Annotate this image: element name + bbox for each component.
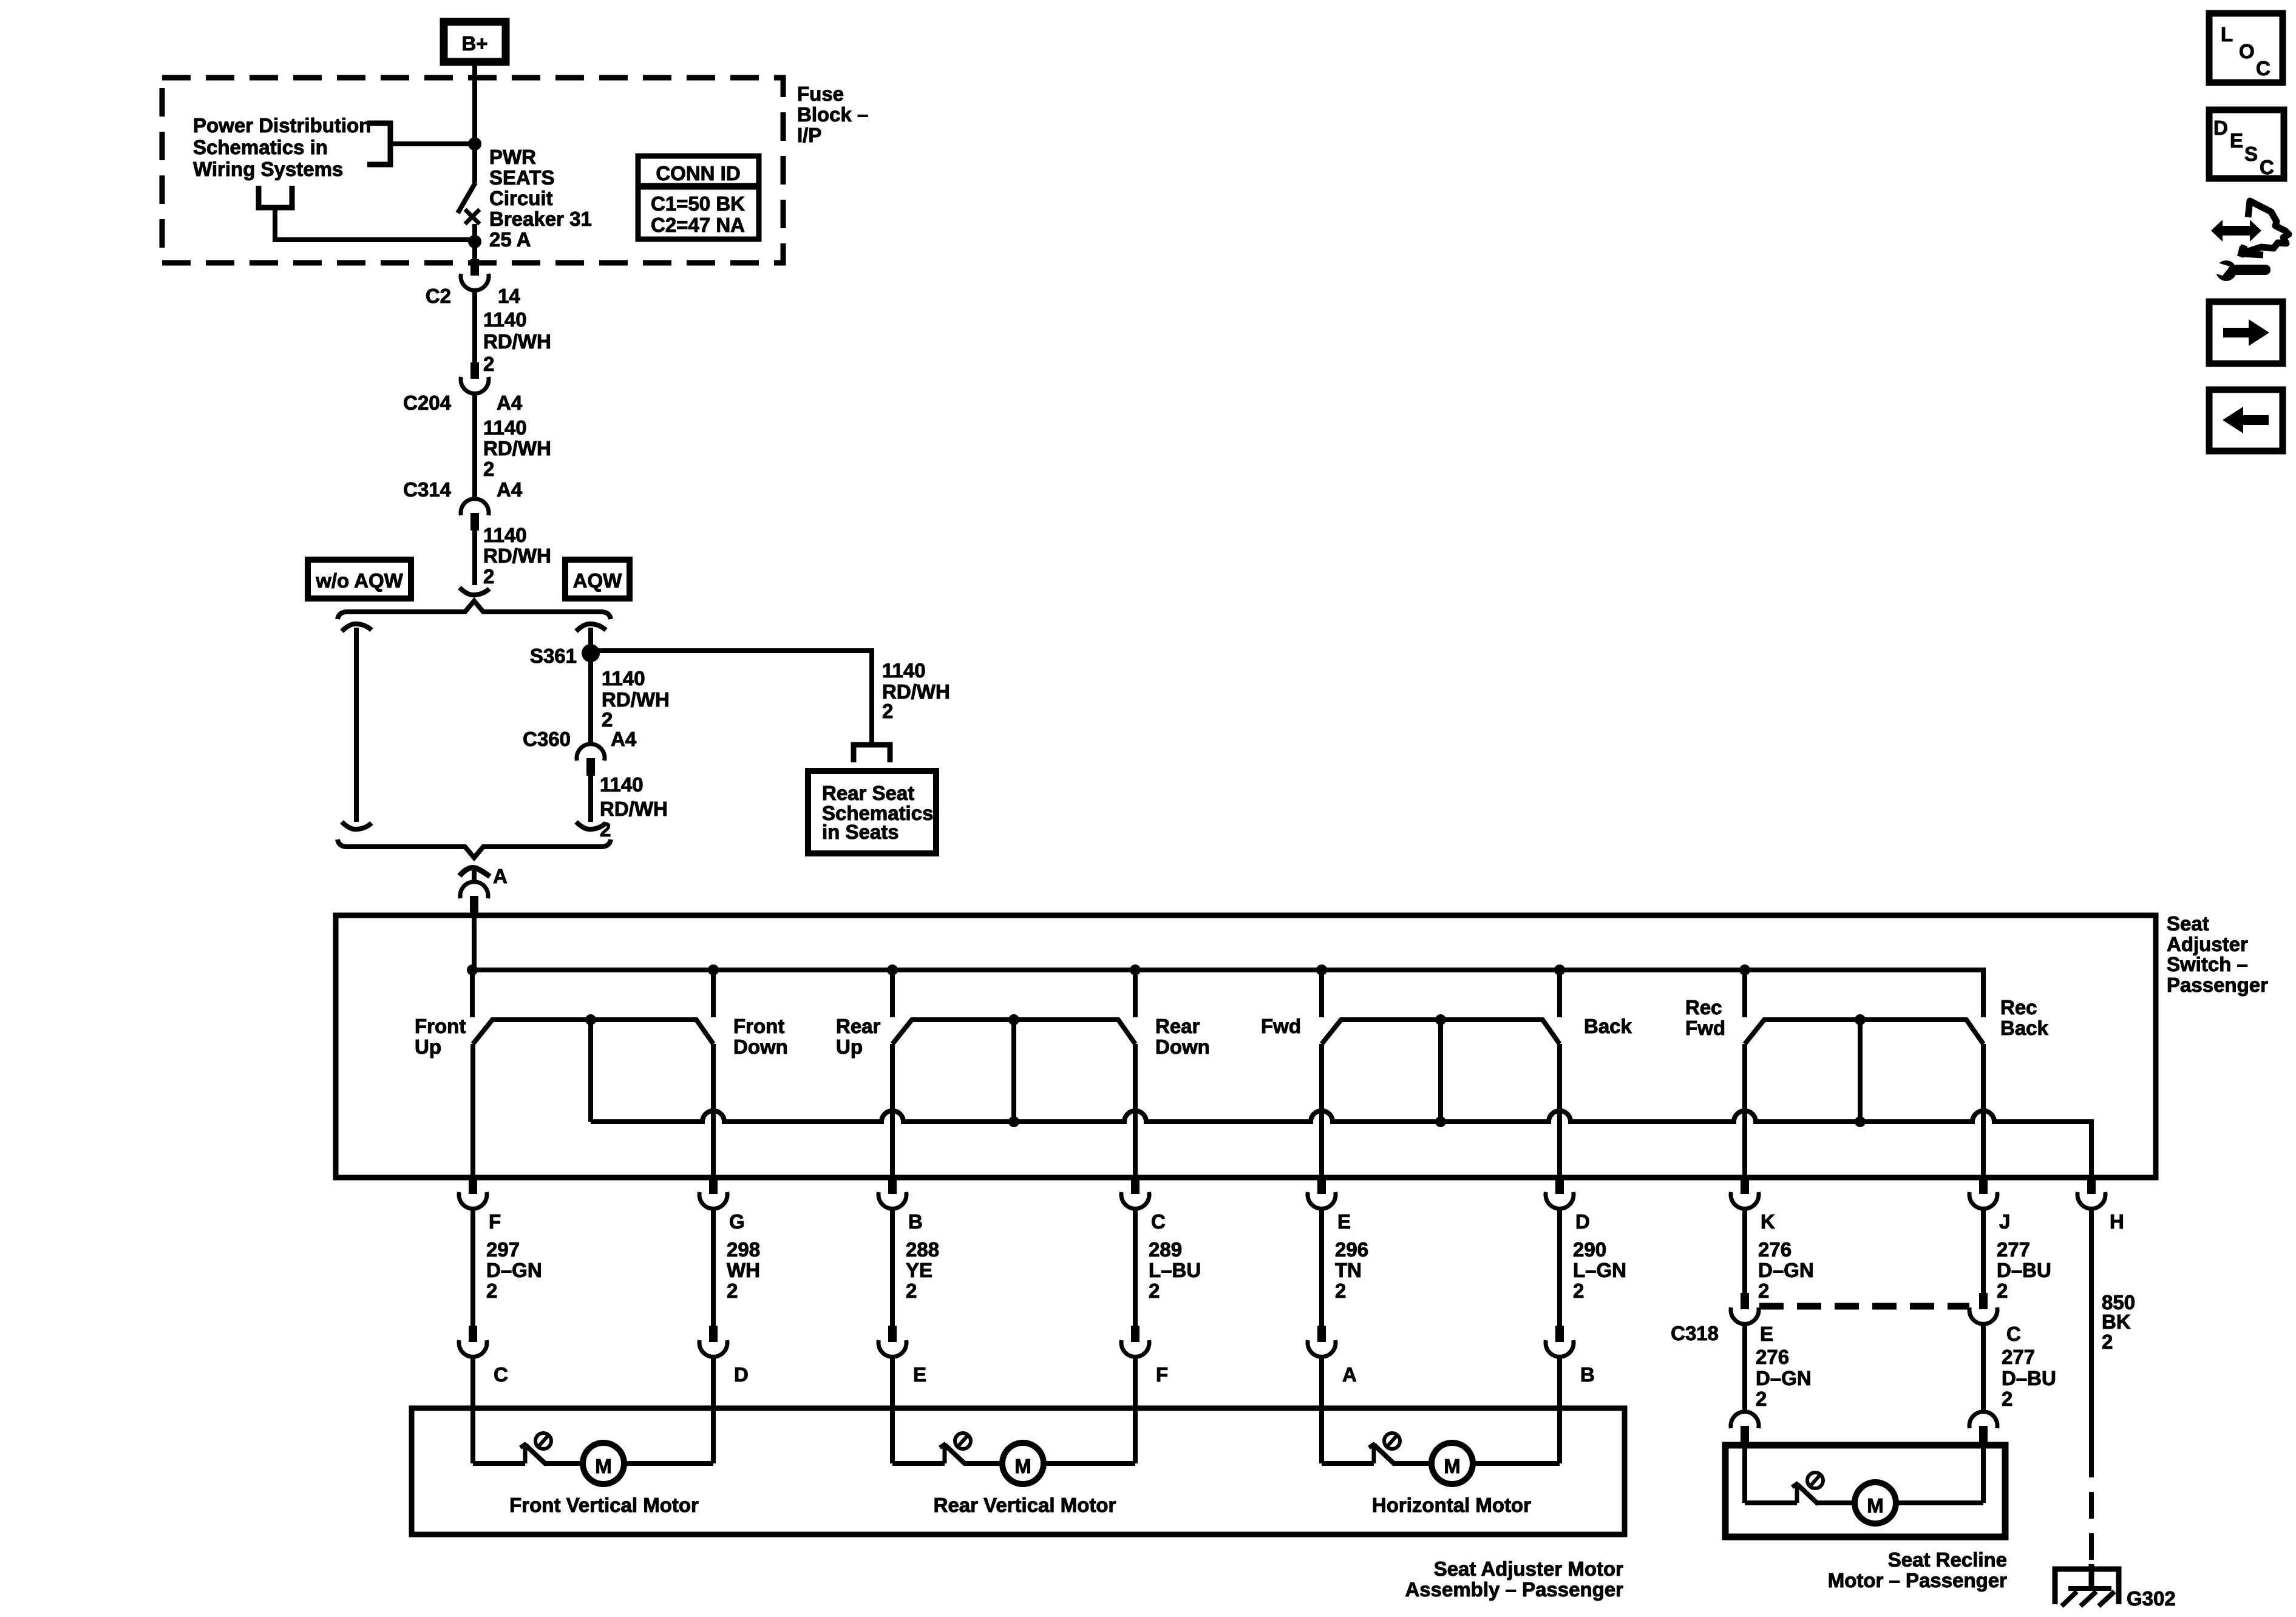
svg-text:E: E — [913, 1363, 926, 1386]
svg-text:25 A: 25 A — [489, 228, 531, 251]
svg-text:289: 289 — [1149, 1238, 1182, 1261]
svg-text:2: 2 — [727, 1280, 738, 1302]
connector A male arc and pin — [460, 882, 488, 898]
motor connector pin C — [459, 1326, 487, 1357]
switch contacts Rear Up / Rear Down — [892, 1020, 1135, 1044]
switch connector pin C — [1121, 1178, 1149, 1209]
svg-text:RD/WH: RD/WH — [483, 437, 551, 459]
seat adjuster motor assembly box — [412, 1408, 1625, 1534]
bus junction x=1870 — [1130, 964, 1141, 975]
blade wire left Fwd / Back — [1319, 1044, 1324, 1178]
wire into motor box x=779 — [470, 1356, 475, 1411]
fuse block I/P dashed outline — [162, 78, 783, 263]
svg-text:C318: C318 — [1671, 1322, 1719, 1344]
svg-text:1140: 1140 — [483, 524, 527, 546]
bracket to second power distribution reference — [259, 186, 292, 208]
motor connector pin B — [1546, 1326, 1574, 1357]
wire from switch pin to motor connector x=2569 — [1557, 1208, 1562, 1326]
svg-text:AQW: AQW — [573, 569, 623, 592]
svg-text:276: 276 — [1756, 1346, 1789, 1368]
svg-text:Back: Back — [1584, 1015, 1632, 1037]
svg-text:14: 14 — [498, 285, 520, 307]
svg-text:1140: 1140 — [882, 659, 926, 682]
svg-text:296: 296 — [1335, 1238, 1368, 1261]
svg-text:Seat: Seat — [2167, 912, 2209, 935]
wire H to ground solid part — [2089, 1208, 2094, 1451]
svg-text:PWR: PWR — [489, 146, 536, 168]
connector C204 pin A4 — [461, 362, 489, 393]
svg-text:E: E — [1337, 1210, 1351, 1233]
svg-text:D–GN: D–GN — [1756, 1367, 1812, 1389]
common bus junction x=2373 — [1435, 1116, 1446, 1127]
svg-text:C204: C204 — [403, 392, 452, 414]
contact junction Front Up / Front Down — [585, 1014, 596, 1025]
wire bracket to breaker output — [275, 208, 475, 240]
svg-text:C2=47 NA: C2=47 NA — [651, 214, 745, 236]
svg-text:H: H — [2110, 1210, 2124, 1233]
svg-text:2: 2 — [483, 458, 494, 480]
wire S361 to C360 — [588, 653, 593, 744]
svg-text:Power Distribution: Power Distribution — [193, 114, 371, 137]
wire from switch pin to motor connector x=1470 — [890, 1208, 895, 1326]
svg-text:BK: BK — [2102, 1310, 2131, 1333]
wire from switch pin to motor connector x=2177 — [1319, 1208, 1324, 1326]
svg-text:A4: A4 — [497, 392, 523, 414]
wire into motor box x=1175 — [711, 1356, 716, 1411]
svg-text:B+: B+ — [461, 32, 487, 55]
svg-text:L–GN: L–GN — [1573, 1259, 1626, 1281]
wire S361 to rear seat schematics — [591, 651, 872, 742]
svg-text:E: E — [1760, 1323, 1773, 1345]
svg-text:2: 2 — [483, 565, 494, 588]
svg-text:D–BU: D–BU — [2002, 1367, 2056, 1389]
bus junction x=1470 — [887, 964, 898, 975]
Front Vertical Motor circuit left wire — [470, 1408, 475, 1463]
svg-text:Rec: Rec — [2000, 996, 2037, 1019]
circuit breaker thermal X mark — [465, 209, 480, 224]
svg-text:RD/WH: RD/WH — [483, 330, 551, 353]
Seat Recline Motor: motor M — [1855, 1482, 1896, 1524]
wire from switch pin to C318 x=2874 — [1742, 1208, 1747, 1293]
motor connector pin F — [1121, 1326, 1149, 1357]
icon next arrow — [2209, 302, 2283, 364]
motor connector pin A — [1308, 1326, 1336, 1357]
svg-text:D–BU: D–BU — [1997, 1259, 2051, 1281]
svg-text:Assembly – Passenger: Assembly – Passenger — [1405, 1578, 1623, 1601]
wire from switch pin to motor connector x=1870 — [1133, 1208, 1138, 1326]
svg-text:277: 277 — [2002, 1346, 2035, 1368]
svg-text:D: D — [2213, 117, 2228, 139]
svg-text:276: 276 — [1758, 1238, 1792, 1261]
svg-text:Fuse: Fuse — [797, 83, 844, 105]
svg-text:2: 2 — [882, 700, 893, 722]
connector C318 pin E — [1731, 1293, 1759, 1324]
svg-text:Front Vertical Motor: Front Vertical Motor — [509, 1494, 699, 1516]
recline motor circuit left wire — [1742, 1445, 1747, 1503]
w/o AQW branch wire — [354, 628, 359, 822]
wire from switch pin to motor connector x=1175 — [711, 1208, 716, 1326]
switch connector pin G — [699, 1178, 727, 1209]
svg-text:2: 2 — [2102, 1331, 2113, 1353]
Horizontal Motor: thermal protector switch — [1322, 1461, 1374, 1466]
contact junction Fwd / Back — [1435, 1014, 1446, 1025]
svg-text:WH: WH — [727, 1259, 760, 1281]
svg-text:D–GN: D–GN — [486, 1259, 542, 1281]
contact junction Rec Fwd / Rec Back — [1855, 1014, 1866, 1025]
connector C360 — [577, 744, 605, 776]
wire to S361 — [588, 628, 593, 653]
bus junction x=2177 — [1316, 964, 1327, 975]
svg-text:M: M — [1867, 1494, 1884, 1517]
connector C2 pin 14 — [461, 259, 489, 290]
svg-text:2: 2 — [600, 818, 611, 841]
center tap wire Rear Up / Rear Down — [1011, 1020, 1016, 1122]
switch connector pin B — [878, 1178, 906, 1209]
Horizontal Motor: motor M — [1432, 1443, 1473, 1484]
AQW branch top curl — [576, 624, 606, 631]
center tap wire Front Up / Front Down — [588, 1020, 593, 1122]
svg-text:C: C — [2260, 156, 2274, 178]
svg-text:RD/WH: RD/WH — [483, 544, 551, 567]
svg-text:Fwd: Fwd — [1685, 1017, 1725, 1039]
svg-text:B: B — [1580, 1363, 1595, 1386]
wire into motor box x=1870 — [1133, 1356, 1138, 1411]
svg-text:G302: G302 — [2127, 1587, 2176, 1610]
w/o AQW branch bottom curl — [342, 822, 372, 829]
svg-text:K: K — [1761, 1210, 1775, 1233]
contact junction Rear Up / Rear Down — [1008, 1014, 1019, 1025]
option split brace bottom — [338, 839, 611, 858]
svg-text:298: 298 — [727, 1238, 760, 1261]
svg-text:Horizontal Motor: Horizontal Motor — [1372, 1494, 1531, 1516]
svg-text:C360: C360 — [523, 728, 571, 750]
bus junction x=778 — [467, 964, 478, 975]
switch contacts Rec Fwd / Rec Back — [1745, 1020, 1983, 1044]
junction at breaker feed — [468, 137, 481, 151]
svg-text:Up: Up — [415, 1036, 441, 1058]
svg-text:1140: 1140 — [602, 667, 645, 690]
svg-text:2: 2 — [1756, 1388, 1767, 1410]
svg-text:C: C — [494, 1363, 508, 1386]
blade wire right Fwd / Back — [1557, 1044, 1562, 1178]
svg-text:2: 2 — [1149, 1280, 1160, 1302]
wire C360 down — [588, 776, 593, 822]
svg-text:Rear Seat: Rear Seat — [822, 782, 914, 804]
wire B+ feed down to breaker — [472, 83, 477, 183]
svg-text:2: 2 — [906, 1280, 917, 1302]
svg-text:Passenger: Passenger — [2167, 974, 2268, 996]
blade wire right Front Up / Front Down — [711, 1044, 716, 1178]
common bus junction x=3064 — [1855, 1116, 1866, 1127]
blade wire right Rear Up / Rear Down — [1133, 1044, 1138, 1178]
wire H dashed to ground — [2089, 1451, 2094, 1567]
connector C314 — [461, 499, 489, 531]
svg-text:F: F — [1156, 1363, 1168, 1386]
svg-text:Up: Up — [836, 1036, 863, 1058]
wire A into switch — [472, 913, 477, 970]
svg-text:Front: Front — [415, 1015, 466, 1037]
switch contacts Fwd / Back — [1322, 1020, 1560, 1044]
svg-text:Down: Down — [733, 1036, 788, 1058]
svg-text:2: 2 — [2002, 1388, 2012, 1410]
Front Vertical Motor: motor M — [583, 1443, 624, 1484]
bracket to Power Distribution Schematics — [367, 123, 390, 164]
junction at breaker output — [468, 235, 481, 248]
bus stub wires — [470, 970, 475, 1017]
icon LOC — [2209, 13, 2283, 83]
switch connector pin H — [2077, 1178, 2105, 1209]
svg-text:Rear: Rear — [1155, 1015, 1200, 1037]
svg-text:J: J — [1999, 1210, 2010, 1233]
recline motor connector pin (right) — [1969, 1412, 1997, 1443]
switch connector pin E — [1308, 1178, 1336, 1209]
svg-text:A: A — [1342, 1363, 1357, 1386]
Horizontal Motor circuit left wire — [1319, 1408, 1324, 1463]
svg-text:2: 2 — [486, 1280, 497, 1302]
svg-text:Fwd: Fwd — [1261, 1015, 1301, 1037]
svg-text:M: M — [595, 1455, 612, 1477]
svg-text:C: C — [2006, 1323, 2021, 1345]
svg-text:M: M — [1444, 1455, 1461, 1477]
svg-text:Front: Front — [733, 1015, 784, 1037]
wire breaker to C2 — [472, 224, 477, 261]
svg-text:YE: YE — [906, 1259, 932, 1281]
svg-text:2: 2 — [483, 353, 494, 375]
switch output common bus with hops — [591, 1111, 2091, 1178]
svg-text:Rec: Rec — [1685, 996, 1722, 1019]
wire B+ to fuse block — [472, 62, 477, 83]
wire end curl above option split — [460, 588, 489, 595]
svg-text:D: D — [1575, 1210, 1590, 1233]
icon back arrow — [2209, 390, 2283, 451]
svg-text:Seat Adjuster Motor: Seat Adjuster Motor — [1434, 1558, 1623, 1580]
svg-text:S361: S361 — [530, 645, 577, 667]
switch connector pin F — [459, 1178, 487, 1209]
Rear Vertical Motor: motor M — [1002, 1443, 1044, 1484]
AQW branch bottom curl — [576, 822, 606, 829]
motor connector pin D — [699, 1326, 727, 1357]
svg-text:290: 290 — [1573, 1238, 1606, 1261]
svg-text:O: O — [2239, 40, 2255, 63]
svg-text:2: 2 — [1758, 1280, 1769, 1302]
connector C318 pin C — [1969, 1293, 1997, 1324]
harness continuation bracket — [854, 745, 890, 762]
svg-text:D: D — [734, 1363, 749, 1386]
blade wire left Rear Up / Rear Down — [890, 1044, 895, 1178]
svg-text:Circuit: Circuit — [489, 187, 553, 209]
wire 1140 RD/WH segment 3 — [472, 531, 477, 585]
svg-text:F: F — [489, 1210, 501, 1233]
svg-text:Switch –: Switch – — [2167, 953, 2248, 975]
recline motor connector pin (left) — [1731, 1412, 1759, 1443]
svg-text:C314: C314 — [403, 478, 452, 501]
seat recline motor box — [1725, 1445, 2005, 1537]
svg-text:B: B — [908, 1210, 923, 1233]
center tap wire Fwd / Back — [1438, 1020, 1443, 1122]
wire into motor box x=1470 — [890, 1356, 895, 1411]
svg-text:D–GN: D–GN — [1758, 1259, 1814, 1281]
wire into motor box x=2569 — [1557, 1356, 1562, 1411]
icon hand with wrench (service) — [2211, 201, 2289, 281]
svg-text:L: L — [2221, 23, 2233, 46]
icon DESC — [2209, 110, 2284, 178]
svg-text:2: 2 — [1997, 1280, 2008, 1302]
svg-text:w/o AQW: w/o AQW — [315, 569, 403, 592]
wire 1140 RD/WH segment 2 — [472, 393, 477, 498]
Seat Recline Motor: thermal protector switch — [1745, 1500, 1797, 1505]
svg-text:C1=50 BK: C1=50 BK — [651, 192, 745, 215]
recline motor circuit right wire — [1981, 1445, 1986, 1503]
svg-text:TN: TN — [1335, 1259, 1362, 1281]
svg-text:Back: Back — [2000, 1017, 2049, 1039]
svg-text:Motor – Passenger: Motor – Passenger — [1828, 1569, 2007, 1592]
svg-text:RD/WH: RD/WH — [600, 798, 668, 820]
svg-text:Breaker 31: Breaker 31 — [489, 208, 592, 230]
wire into motor box x=2177 — [1319, 1356, 1324, 1411]
Rear Vertical Motor circuit right wire — [1133, 1408, 1138, 1463]
svg-text:A4: A4 — [497, 478, 523, 501]
CONN ID table — [638, 156, 759, 239]
switch connector pin D — [1546, 1178, 1574, 1209]
Horizontal Motor circuit right wire — [1557, 1408, 1562, 1463]
C318 connector dashed tie line — [1759, 1303, 1969, 1310]
svg-text:C2: C2 — [426, 285, 451, 307]
switch contacts Front Up / Front Down — [473, 1020, 713, 1044]
svg-text:L–BU: L–BU — [1149, 1259, 1201, 1281]
blade wire left Rec Fwd / Rec Back — [1742, 1044, 1747, 1178]
svg-text:Block –: Block – — [797, 103, 868, 126]
motor connector pin E — [878, 1326, 906, 1357]
box Rear Seat Schematics in Seats — [808, 771, 936, 853]
wire 1140 RD/WH segment 1 — [472, 290, 477, 362]
wire C318-E to recline motor — [1742, 1323, 1747, 1411]
svg-text:1140: 1140 — [600, 773, 644, 796]
svg-text:C: C — [2256, 57, 2271, 80]
Front Vertical Motor circuit right wire — [711, 1408, 716, 1463]
option label box AQW — [565, 560, 630, 598]
svg-text:G: G — [729, 1210, 745, 1233]
svg-text:Adjuster: Adjuster — [2167, 933, 2248, 955]
common bus junction x=1670 — [1008, 1116, 1019, 1127]
svg-text:Rear: Rear — [836, 1015, 881, 1037]
svg-text:Schematics in: Schematics in — [193, 136, 328, 158]
svg-text:A: A — [493, 865, 508, 887]
Rear Vertical Motor circuit left wire — [890, 1408, 895, 1463]
svg-text:277: 277 — [1997, 1238, 2030, 1261]
splice S361 — [582, 644, 600, 662]
connector A female curl — [460, 868, 490, 877]
bus junction x=1175 — [708, 964, 719, 975]
wire C318-C to recline motor — [1981, 1323, 1986, 1411]
bus junction x=2874 — [1739, 964, 1750, 975]
svg-text:2: 2 — [1573, 1280, 1584, 1302]
svg-text:SEATS: SEATS — [489, 166, 555, 189]
switch connector pin K — [1731, 1178, 1759, 1209]
switch connector pin J — [1969, 1178, 1997, 1209]
svg-text:S: S — [2244, 143, 2258, 165]
power symbol B+ — [444, 22, 506, 62]
svg-text:297: 297 — [486, 1238, 520, 1261]
wire bracket to breaker feed — [390, 141, 475, 146]
svg-text:1140: 1140 — [483, 308, 527, 331]
Front Vertical Motor: thermal protector switch — [473, 1461, 525, 1466]
svg-text:I/P: I/P — [797, 124, 821, 146]
svg-text:E: E — [2230, 129, 2243, 152]
blade wire right Rec Fwd / Rec Back — [1981, 1044, 1986, 1178]
Rear Vertical Motor: thermal protector switch — [892, 1461, 945, 1466]
circuit breaker 31 blade — [458, 183, 475, 213]
bus junction x=2569 — [1554, 964, 1565, 975]
ground G302 symbol — [2055, 1564, 2119, 1606]
option label box w/o AQW — [308, 560, 411, 598]
connector A stem — [472, 869, 477, 881]
w/o AQW branch top curl — [342, 624, 372, 631]
svg-text:Wiring Systems: Wiring Systems — [193, 158, 343, 180]
wire from switch pin to C318 x=3267 — [1981, 1208, 1986, 1293]
switch feed bus — [472, 970, 1983, 1017]
svg-text:in Seats: in Seats — [822, 821, 899, 843]
blade wire left Front Up / Front Down — [470, 1044, 475, 1178]
svg-text:Seat Recline: Seat Recline — [1888, 1548, 2007, 1571]
svg-text:Down: Down — [1155, 1036, 1210, 1058]
svg-text:Rear Vertical Motor: Rear Vertical Motor — [934, 1494, 1116, 1516]
svg-text:RD/WH: RD/WH — [602, 688, 670, 711]
svg-text:CONN ID: CONN ID — [656, 162, 740, 185]
svg-text:288: 288 — [906, 1238, 939, 1261]
option split brace top — [338, 601, 611, 619]
svg-text:1140: 1140 — [483, 416, 527, 439]
svg-text:M: M — [1014, 1455, 1031, 1477]
svg-text:2: 2 — [1335, 1280, 1346, 1302]
center tap wire Rec Fwd / Rec Back — [1858, 1020, 1863, 1122]
wire from switch pin to motor connector x=779 — [470, 1208, 475, 1326]
svg-text:C: C — [1151, 1210, 1166, 1233]
seat adjuster switch box outline — [336, 915, 2156, 1178]
svg-text:A4: A4 — [611, 728, 637, 750]
